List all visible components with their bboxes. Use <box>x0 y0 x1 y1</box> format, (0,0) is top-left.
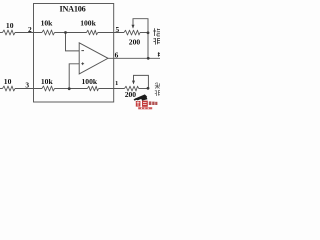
junction node B <box>147 31 150 34</box>
resistor 100k (top internal) <box>87 30 98 35</box>
svg-text:100k: 100k <box>81 77 97 86</box>
svg-text:INA106: INA106 <box>59 4 85 13</box>
wire: node C to 100k <box>69 88 87 90</box>
op-amp minus sign <box>81 49 84 52</box>
junction node D <box>147 87 150 90</box>
wire: trimmer to node D <box>139 88 148 90</box>
wire: 10k to node C <box>55 88 70 90</box>
svg-text:100k: 100k <box>80 19 96 28</box>
trimmer 200 (offset, bottom-right) <box>125 86 139 91</box>
wire: node B down to output line <box>147 33 149 59</box>
wiper of gain trimmer <box>133 19 148 33</box>
svg-text:2: 2 <box>28 25 32 34</box>
svg-text:5: 5 <box>115 25 119 34</box>
label gain-adjust (Chinese, cut off at right edge): 增益 / 调节 <box>153 28 160 44</box>
svg-text:6: 6 <box>115 50 119 59</box>
watermark red characters <box>136 101 158 110</box>
svg-text:200: 200 <box>125 90 137 99</box>
label output (cut fragment at right edge of output wire) <box>158 52 160 56</box>
junction node C <box>68 87 71 90</box>
wiper of offset trimmer <box>134 75 149 88</box>
junction on output line <box>147 57 150 60</box>
resistor 10k (top internal) <box>42 30 55 35</box>
resistor 10 (bottom-left external) <box>3 86 16 91</box>
wire: 10k to node A <box>55 32 66 34</box>
wire: output to pin 6 and right edge <box>108 57 160 59</box>
wire: op-amp inverting input from node A <box>66 33 80 51</box>
wire: 100k to pin 1 and out of box <box>99 88 125 90</box>
wire: op-amp non-inverting input from node C <box>69 64 79 89</box>
trimmer 200 (gain, top-right) <box>124 30 140 35</box>
op-amp U1 triangle <box>79 43 108 74</box>
wire: 100k to pin 5 and out of box <box>98 32 124 34</box>
watermark logo swoosh (black) <box>134 94 148 100</box>
resistor 10 (top-left external) <box>3 30 16 35</box>
svg-text:10k: 10k <box>41 19 54 28</box>
wire: node A to 100k <box>66 32 87 34</box>
wire: trimmer to node B <box>140 32 148 34</box>
arrowhead offset wiper <box>132 81 135 85</box>
svg-text:1: 1 <box>115 80 118 87</box>
op-amp plus sign <box>81 62 84 65</box>
arrowhead gain wiper <box>132 25 135 29</box>
svg-text:3: 3 <box>25 80 29 89</box>
junction node A <box>64 31 67 34</box>
label offset-adjust (Chinese, cut off at right edge): 失调 / 调节 <box>155 82 160 96</box>
svg-text:10k: 10k <box>41 77 54 86</box>
IC box INA106 <box>34 4 114 103</box>
background <box>0 0 160 110</box>
resistor 100k (bottom internal) <box>87 86 98 91</box>
svg-text:10: 10 <box>6 21 14 30</box>
resistor 10k (bottom internal) <box>42 86 55 91</box>
svg-text:200: 200 <box>129 37 141 46</box>
wire: into pin 2 <box>15 32 42 34</box>
svg-text:10: 10 <box>4 77 12 86</box>
wire: bottom input from left edge <box>0 88 3 90</box>
wire: into pin 3 <box>15 88 42 90</box>
wire: top input from left edge <box>0 32 3 34</box>
